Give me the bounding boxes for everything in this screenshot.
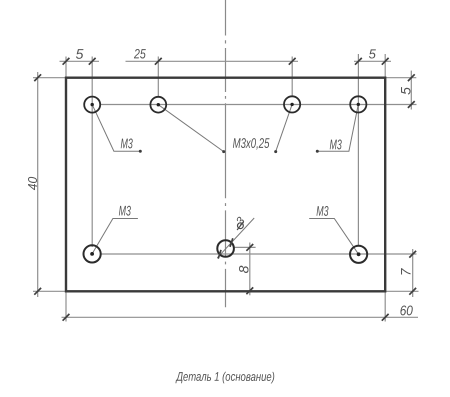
extension below left corner (60 dim) xyxy=(65,291,67,321)
extension below right corner (60 dim) xyxy=(384,291,386,321)
extension right of bottom edge xyxy=(385,290,418,292)
leader diameter 3 center hole xyxy=(217,218,254,258)
svg-text:М3: М3 xyxy=(121,135,133,151)
leader M3 hole4 xyxy=(317,104,358,151)
svg-text:Деталь 1 (основание): Деталь 1 (основание) xyxy=(175,370,275,384)
hole center dots xyxy=(90,103,360,257)
svg-text:М3: М3 xyxy=(119,202,131,218)
dimension line 5 (right upper) xyxy=(410,71,412,110)
svg-text:М3: М3 xyxy=(330,136,342,152)
extension left of bottom edge (40 dim) xyxy=(33,290,66,292)
hole 6 bottom-right M3 xyxy=(350,246,367,263)
svg-text:5: 5 xyxy=(369,46,377,61)
svg-text:25: 25 xyxy=(133,46,146,61)
ticks of diameter-3 measurement on circle xyxy=(218,250,221,259)
extension line at x=92 (hole column) xyxy=(91,57,93,248)
top hole row axis line xyxy=(100,104,417,106)
label diameter 3 (diameter symbol + digit) xyxy=(237,221,244,230)
extension left of top edge (40 dim) xyxy=(33,77,66,79)
dimension line 5 (top left) xyxy=(60,60,100,62)
extension line at x=385 above plate xyxy=(384,54,386,78)
dimension line 40 (left) xyxy=(37,72,39,297)
svg-text:5: 5 xyxy=(76,46,84,62)
hole 3 M3x0,25 xyxy=(284,96,300,112)
leader end dots xyxy=(139,150,319,153)
thin extension and feature lines xyxy=(33,54,419,322)
centerline (vertical dash-dot axis) xyxy=(225,0,227,307)
svg-text:М3х0,25: М3х0,25 xyxy=(233,135,270,151)
svg-text:40: 40 xyxy=(25,176,40,190)
leader M3 hole1 xyxy=(92,105,140,152)
hole 4 top-right M3 xyxy=(350,96,366,112)
hole 1 top-left M3 xyxy=(84,96,366,112)
dimension line 7 (right lower) xyxy=(412,249,414,297)
leader M3 bottom-left hole xyxy=(92,219,138,254)
dimension line 5 (top right) xyxy=(354,60,391,62)
hole 2 M3x0,25 xyxy=(150,97,166,113)
extension line at x=358 (hole column) xyxy=(357,54,359,246)
extension line at x=158 (hole column) xyxy=(157,57,159,98)
svg-text:60: 60 xyxy=(400,302,413,318)
extension line at x=66 (left edge) xyxy=(65,57,67,78)
plate outline xyxy=(66,78,385,292)
extension right of top edge xyxy=(385,77,416,79)
hole 7 center diameter 3 xyxy=(217,240,234,257)
dimension line 25 (top) xyxy=(126,60,299,62)
extension line at x=292 (hole column) xyxy=(291,57,293,97)
leader M3 bottom-right hole xyxy=(309,219,358,255)
svg-text:5: 5 xyxy=(397,87,413,95)
svg-text:8: 8 xyxy=(235,265,251,273)
bottom hole row axis line xyxy=(101,253,417,255)
hole 5 bottom-left M3 xyxy=(84,240,368,263)
dimension tick marks (45 deg slashes) xyxy=(34,58,416,321)
leader lines xyxy=(92,104,359,257)
svg-text:М3: М3 xyxy=(316,203,328,219)
leader M3x0,25 hole2 xyxy=(158,105,223,152)
svg-text:7: 7 xyxy=(399,268,414,276)
dimension line 60 (bottom) xyxy=(62,316,419,318)
extension for 8 dim xyxy=(234,246,256,248)
leader M3x0,25 hole3 xyxy=(276,104,292,151)
dimension line 8 xyxy=(249,243,251,296)
